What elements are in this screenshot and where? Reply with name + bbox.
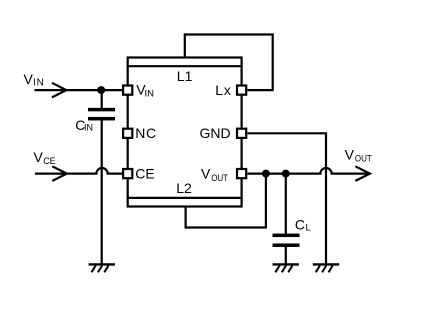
svg-text:IN: IN (145, 88, 155, 99)
svg-text:OUT: OUT (211, 172, 228, 183)
svg-text:V: V (201, 166, 211, 182)
svg-text:CE: CE (135, 165, 154, 181)
svg-text:L: L (306, 223, 311, 234)
svg-text:Lx: Lx (215, 82, 232, 98)
svg-text:V: V (34, 149, 44, 165)
svg-text:V: V (345, 146, 355, 162)
svg-text:C: C (295, 217, 305, 233)
svg-text:OUT: OUT (355, 153, 372, 164)
svg-text:L2: L2 (176, 180, 192, 196)
svg-text:IN: IN (84, 123, 93, 133)
svg-text:GND: GND (200, 125, 231, 141)
svg-text:IN: IN (33, 77, 45, 88)
svg-text:V: V (24, 71, 34, 87)
svg-text:L1: L1 (177, 68, 193, 84)
svg-text:NC: NC (135, 125, 157, 141)
svg-text:CE: CE (43, 156, 56, 166)
